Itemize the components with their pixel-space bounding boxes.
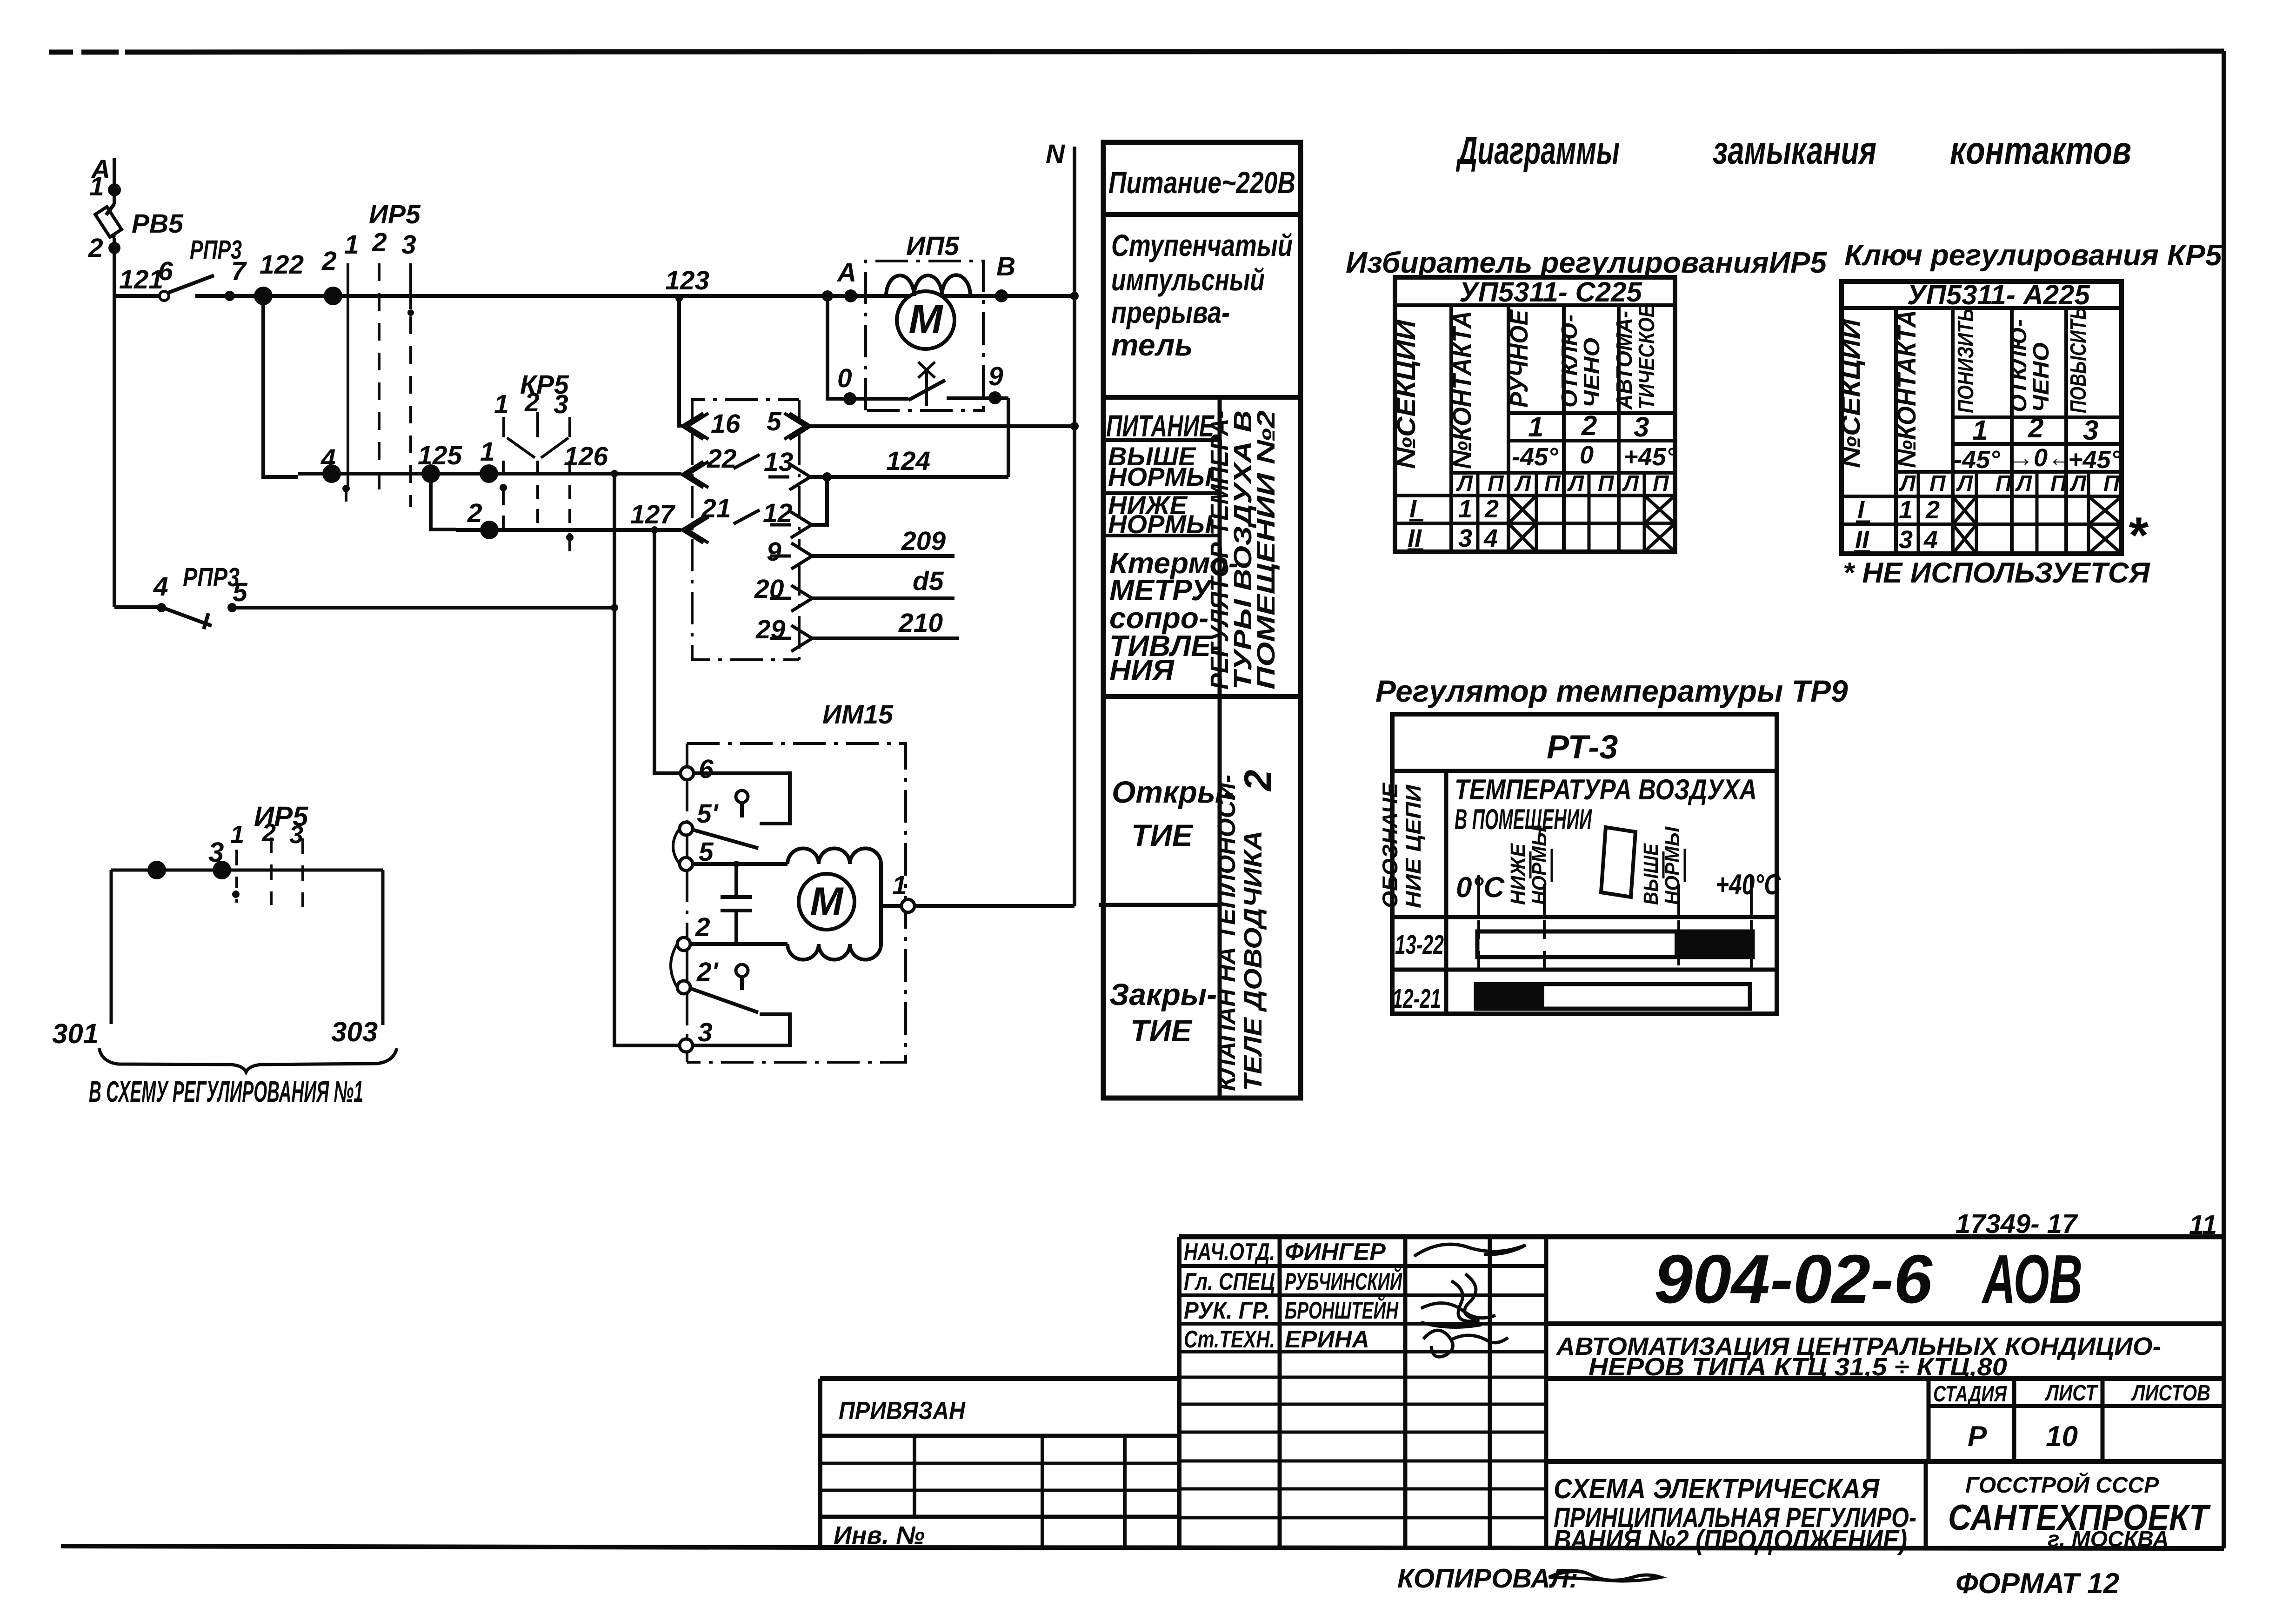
svg-text:Л: Л (2069, 471, 2087, 496)
svg-text:3: 3 (1458, 524, 1472, 552)
svg-text:№КОНТАКТА: №КОНТАКТА (1892, 310, 1921, 468)
svg-text:ПРИВЯЗАН: ПРИВЯЗАН (839, 1397, 966, 1425)
svg-text:Диаграммы: Диаграммы (1456, 128, 1620, 172)
svg-text:Гл. СПЕЦ: Гл. СПЕЦ (1184, 1268, 1275, 1295)
svg-text:II: II (1408, 524, 1422, 552)
svg-text:П: П (1653, 471, 1669, 496)
svg-text:1: 1 (480, 437, 495, 467)
svg-text:В: В (996, 252, 1015, 281)
svg-text:13: 13 (764, 447, 794, 477)
svg-text:I: I (1409, 495, 1417, 523)
svg-text:1: 1 (230, 821, 244, 849)
svg-text:1: 1 (1528, 411, 1543, 442)
svg-text:ВЫШЕ: ВЫШЕ (1640, 843, 1662, 905)
svg-text:НОРМЫ: НОРМЫ (1108, 462, 1213, 491)
svg-text:ЧЕНО: ЧЕНО (1580, 338, 1604, 408)
svg-text:ВАНИЯ №2 (ПРОДОЛЖЕНИЕ): ВАНИЯ №2 (ПРОДОЛЖЕНИЕ) (1554, 1524, 1907, 1555)
svg-text:БРОНШТЕЙН: БРОНШТЕЙН (1285, 1296, 1399, 1324)
svg-text:2: 2 (261, 819, 276, 847)
svg-text:В ПОМЕЩЕНИИ: В ПОМЕЩЕНИИ (1455, 804, 1592, 836)
svg-text:+40°С: +40°С (1715, 869, 1781, 901)
svg-text:ЕРИНА: ЕРИНА (1285, 1326, 1369, 1353)
svg-text:+45°: +45° (2068, 446, 2121, 474)
svg-text:НИЖЕ: НИЖЕ (1507, 843, 1529, 905)
svg-text:29: 29 (755, 615, 786, 644)
svg-text:СТАДИЯ: СТАДИЯ (1933, 1382, 2007, 1407)
svg-text:2: 2 (1237, 770, 1279, 792)
svg-text:2: 2 (2028, 412, 2043, 443)
svg-text:НИЯ: НИЯ (1109, 653, 1175, 687)
svg-text:5': 5' (697, 799, 719, 829)
svg-text:ТИЕ: ТИЕ (1130, 1013, 1193, 1048)
svg-text:Л: Л (1622, 471, 1639, 496)
svg-text:2: 2 (467, 498, 482, 528)
svg-text:22: 22 (707, 444, 737, 474)
svg-text:16: 16 (711, 409, 741, 439)
svg-text:I: I (1857, 496, 1865, 524)
svg-text:УП5311- А225: УП5311- А225 (1907, 279, 2091, 310)
svg-text:№СЕКЦИИ: №СЕКЦИИ (1836, 318, 1865, 468)
svg-text:2: 2 (321, 246, 337, 276)
svg-text:Л: Л (1899, 471, 1916, 496)
svg-text:123: 123 (665, 266, 709, 295)
svg-text:12: 12 (763, 498, 793, 528)
svg-text:2: 2 (372, 228, 387, 257)
svg-text:126: 126 (564, 442, 608, 471)
svg-text:125: 125 (418, 441, 462, 470)
svg-text:9: 9 (767, 537, 781, 567)
svg-text:1: 1 (89, 172, 104, 201)
svg-text:Регулятор температуры ТР9: Регулятор температуры ТР9 (1375, 674, 1848, 708)
svg-text:П: П (1929, 471, 1946, 496)
svg-text:РУБЧИНСКИЙ: РУБЧИНСКИЙ (1285, 1267, 1402, 1295)
svg-text:1: 1 (344, 230, 359, 260)
svg-text:П: П (1598, 471, 1615, 496)
svg-text:П: П (1488, 471, 1504, 496)
svg-text:+45°: +45° (1623, 443, 1676, 471)
svg-text:импульсный: импульсный (1111, 262, 1265, 297)
svg-text:M: M (908, 296, 943, 342)
svg-text:Р: Р (1968, 1420, 1987, 1453)
svg-text:РПР3: РПР3 (183, 563, 240, 592)
svg-text:РУК. ГР.: РУК. ГР. (1184, 1297, 1270, 1324)
svg-text:4: 4 (1483, 524, 1498, 552)
svg-text:1: 1 (892, 871, 907, 900)
svg-text:3: 3 (1899, 526, 1913, 554)
svg-text:ПОМЕЩЕНИИ №2: ПОМЕЩЕНИИ №2 (1252, 410, 1280, 690)
svg-text:№СЕКЦИИ: №СЕКЦИИ (1391, 319, 1421, 469)
svg-text:6: 6 (158, 256, 173, 286)
svg-text:АОВ: АОВ (1981, 1241, 2082, 1318)
svg-text:1: 1 (494, 389, 509, 419)
svg-text:ИМ15: ИМ15 (822, 700, 894, 730)
svg-text:В СХЕМУ РЕГУЛИРОВАНИЯ №1: В СХЕМУ РЕГУЛИРОВАНИЯ №1 (89, 1075, 363, 1108)
svg-text:ПИТАНИЕ: ПИТАНИЕ (1106, 409, 1215, 443)
svg-text:3: 3 (2083, 415, 2098, 446)
svg-text:0°С: 0°С (1456, 871, 1505, 904)
svg-text:5: 5 (767, 407, 782, 436)
svg-text:3: 3 (554, 389, 568, 419)
svg-text:Питание~220В: Питание~220В (1108, 165, 1295, 200)
svg-text:2: 2 (524, 388, 540, 417)
svg-text:2: 2 (1581, 410, 1597, 441)
svg-text:4: 4 (1923, 526, 1938, 554)
svg-text:ЧЕНО: ЧЕНО (2029, 342, 2054, 412)
svg-text:Л: Л (1567, 471, 1584, 496)
svg-text:209: 209 (901, 526, 946, 556)
svg-text:11: 11 (2189, 1210, 2217, 1240)
svg-text:122: 122 (260, 250, 304, 280)
svg-text:904-02-6: 904-02-6 (1654, 1241, 1933, 1318)
svg-text:*: * (2127, 507, 2149, 564)
svg-text:121: 121 (119, 265, 163, 295)
svg-text:ОТКЛЮ-: ОТКЛЮ- (2007, 319, 2031, 412)
svg-text:НИЕ ЦЕПИ: НИЕ ЦЕПИ (1401, 784, 1425, 908)
svg-text:П: П (2103, 471, 2120, 496)
svg-text:3: 3 (208, 837, 224, 868)
svg-text:ИП5: ИП5 (906, 231, 960, 261)
svg-text:ОТКЛЮ-: ОТКЛЮ- (1557, 315, 1582, 408)
svg-text:П: П (1544, 471, 1561, 496)
svg-text:210: 210 (898, 608, 943, 638)
svg-text:→0←: →0← (2009, 444, 2073, 472)
svg-text:ТИЧЕСКОЕ: ТИЧЕСКОЕ (1635, 304, 1659, 409)
svg-text:ЛИСТ: ЛИСТ (2044, 1381, 2098, 1406)
svg-text:20: 20 (754, 574, 784, 604)
svg-text:* НЕ ИСПОЛЬЗУЕТСЯ: * НЕ ИСПОЛЬЗУЕТСЯ (1843, 557, 2150, 589)
svg-text:КЛАПАН НА ТЕПЛОНОСИ-: КЛАПАН НА ТЕПЛОНОСИ- (1213, 775, 1241, 1091)
svg-text:5: 5 (699, 837, 714, 867)
svg-text:Избиратель регулированияИР5: Избиратель регулированияИР5 (1346, 246, 1827, 279)
svg-text:1: 1 (1899, 496, 1913, 524)
svg-text:ФОРМАТ 12: ФОРМАТ 12 (1956, 1567, 2119, 1600)
svg-text:1: 1 (1972, 415, 1988, 446)
svg-text:замыкания: замыкания (1713, 128, 1876, 172)
svg-text:СХЕМА ЭЛЕКТРИЧЕСКАЯ: СХЕМА ЭЛЕКТРИЧЕСКАЯ (1554, 1473, 1880, 1504)
svg-text:12-21: 12-21 (1392, 984, 1441, 1014)
svg-text:РВ5: РВ5 (132, 209, 184, 239)
svg-text:2: 2 (695, 912, 710, 942)
svg-text:ПОВЫСИТЬ: ПОВЫСИТЬ (2066, 307, 2091, 413)
svg-text:ГОССТРОЙ СССР: ГОССТРОЙ СССР (1965, 1472, 2159, 1498)
svg-text:УП5311- С225: УП5311- С225 (1459, 276, 1643, 308)
svg-text:7: 7 (231, 256, 247, 286)
svg-text:21: 21 (701, 494, 731, 523)
svg-text:ОБОЗНАЧЕ-: ОБОЗНАЧЕ- (1378, 776, 1402, 908)
svg-text:3: 3 (289, 821, 303, 849)
svg-text:0: 0 (837, 363, 852, 393)
svg-text:-45°: -45° (1954, 446, 2000, 474)
svg-text:Ключ регулирования КР5: Ключ регулирования КР5 (1844, 238, 2223, 272)
svg-text:d5: d5 (913, 566, 944, 596)
svg-text:Инв. №: Инв. № (834, 1521, 925, 1549)
svg-text:АВТОМА-: АВТОМА- (1612, 311, 1637, 410)
svg-text:РТ-3: РТ-3 (1547, 729, 1618, 766)
svg-text:4: 4 (153, 572, 168, 602)
svg-text:НАЧ.ОТД.: НАЧ.ОТД. (1184, 1239, 1275, 1266)
svg-text:контактов: контактов (1950, 128, 2131, 172)
svg-text:НОРМЫ: НОРМЫ (1108, 509, 1213, 539)
svg-text:Ступенчатый: Ступенчатый (1111, 228, 1293, 262)
svg-text:2: 2 (1925, 496, 1940, 524)
svg-text:6: 6 (699, 754, 714, 784)
svg-text:ЛИСТОВ: ЛИСТОВ (2131, 1381, 2210, 1406)
svg-text:127: 127 (630, 500, 675, 529)
svg-text:ИР5: ИР5 (369, 200, 421, 229)
svg-text:ПОНИЗИТЬ: ПОНИЗИТЬ (1954, 308, 1978, 413)
svg-text:РУЧНОЕ: РУЧНОЕ (1505, 309, 1533, 408)
svg-text:П: П (2050, 471, 2067, 496)
svg-text:ТЕЛЕ ДОВОДЧИКА: ТЕЛЕ ДОВОДЧИКА (1239, 831, 1267, 1091)
svg-text:прерыва-: прерыва- (1111, 295, 1230, 329)
svg-text:2: 2 (1484, 495, 1499, 523)
svg-text:1: 1 (1458, 495, 1472, 523)
svg-text:10: 10 (2046, 1420, 2078, 1453)
svg-text:ТИЕ: ТИЕ (1131, 818, 1194, 852)
svg-text:-45°: -45° (1512, 443, 1558, 471)
svg-text:Л: Л (1514, 471, 1531, 496)
svg-text:4: 4 (320, 444, 336, 474)
svg-text:Ст.ТЕХН.: Ст.ТЕХН. (1184, 1326, 1275, 1353)
svg-text:17349- 17: 17349- 17 (1956, 1209, 2078, 1239)
svg-text:тель: тель (1111, 328, 1193, 362)
svg-text:Л: Л (2015, 471, 2032, 496)
svg-text:9: 9 (988, 362, 1003, 391)
svg-text:П: П (1996, 471, 2012, 496)
svg-text:2': 2' (696, 957, 719, 987)
svg-text:г. МОСКВА: г. МОСКВА (2048, 1527, 2169, 1552)
svg-text:№КОНТАКТА: №КОНТАКТА (1447, 311, 1476, 469)
svg-text:Закры-: Закры- (1109, 977, 1217, 1011)
svg-text:Л: Л (1956, 471, 1973, 496)
svg-text:301: 301 (52, 1018, 99, 1049)
svg-text:N: N (1046, 139, 1066, 169)
svg-text:3: 3 (1634, 411, 1649, 442)
svg-text:2: 2 (88, 233, 103, 263)
svg-text:13-22: 13-22 (1395, 930, 1444, 960)
svg-text:ТЕМПЕРАТУРА ВОЗДУХА: ТЕМПЕРАТУРА ВОЗДУХА (1455, 774, 1757, 806)
svg-text:0: 0 (1580, 441, 1594, 469)
svg-text:A: A (836, 258, 856, 288)
svg-text:124: 124 (886, 446, 930, 476)
svg-text:M: M (810, 879, 844, 924)
svg-text:II: II (1855, 526, 1869, 554)
svg-text:3: 3 (698, 1018, 713, 1047)
svg-text:НЕРОВ ТИПА КТЦ 31,5 ÷ КТЦ,80: НЕРОВ ТИПА КТЦ 31,5 ÷ КТЦ,80 (1589, 1353, 2007, 1381)
svg-text:Л: Л (1456, 471, 1473, 496)
svg-text:3: 3 (401, 230, 416, 260)
svg-text:303: 303 (331, 1016, 378, 1047)
svg-text:ФИНГЕР: ФИНГЕР (1285, 1239, 1386, 1266)
